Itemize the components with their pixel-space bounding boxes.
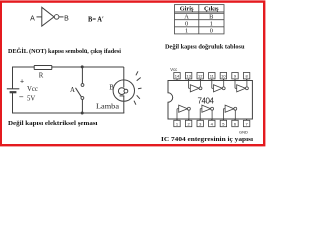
wire bottom [13,112,125,114]
pin 14 [174,73,180,79]
inverter U1 [42,7,59,26]
pin 3 [197,120,203,126]
gate U2B pins 11-10 [212,79,225,92]
wire left lower [12,92,14,113]
pin 2 [185,120,191,126]
pin 13 [185,73,191,79]
pin 9 [232,73,238,79]
IC body U2 [168,81,252,120]
svg-text:Çıkış: Çıkış [204,6,219,13]
gate U2F pins 5-6 [223,105,236,120]
wire top [13,66,124,68]
svg-text:B= A′: B= A′ [88,14,104,23]
svg-text:GND: GND [239,130,248,135]
svg-text:14: 14 [175,74,180,79]
svg-text:Değil kapısı elektriksel şemas: Değil kapısı elektriksel şeması [8,120,98,127]
lamp [113,67,134,113]
gate U2C pins 9-8 [235,79,248,92]
svg-text:5V: 5V [27,95,35,102]
pin 11 [209,73,215,79]
svg-text:A: A [30,15,35,22]
lamp rays [134,71,142,104]
svg-text:1: 1 [185,28,188,35]
gate U2D pins 1-2 [177,105,190,120]
battery BT1 [7,89,19,92]
svg-text:Değil kapısı doğruluk tablosu: Değil kapısı doğruluk tablosu [165,44,245,51]
svg-text:IC 7404 entegresinin iç yapısı: IC 7404 entegresinin iç yapısı [161,136,253,143]
svg-text:DEĞİL (NOT) kapısı sembolü, ç: DEĞİL (NOT) kapısı sembolü, çıkış ifades… [8,47,121,55]
pin 12 [197,73,203,79]
svg-text:0: 0 [210,28,213,35]
pin 8 [243,73,249,79]
wire [37,16,42,18]
svg-text:Vcc: Vcc [27,86,38,93]
pin 1 [174,120,180,126]
truth table [175,5,225,34]
svg-text:A: A [70,87,75,94]
svg-text:13: 13 [186,74,191,79]
svg-text:Lamba: Lamba [96,103,119,110]
pin stems top [177,79,247,81]
svg-text:Giriş: Giriş [180,6,194,13]
svg-text:Vcc: Vcc [170,67,177,72]
svg-text:A: A [184,14,189,21]
wire left upper [12,67,14,89]
svg-text:B: B [209,14,213,21]
gate U2E pins 3-4 [200,105,213,120]
switch A [76,65,84,114]
pin 5 [220,120,226,126]
resistor R [34,66,52,80]
pin 10 [220,73,226,79]
svg-text:12: 12 [198,74,203,79]
svg-text:7404: 7404 [198,96,215,105]
pin 7 [243,120,249,126]
svg-text:−: − [19,93,24,102]
svg-text:B: B [64,15,69,22]
pin 4 [209,120,215,126]
svg-text:10: 10 [221,74,226,79]
pin 6 [232,120,238,126]
gate U2A pins 13-12 [189,79,202,92]
svg-text:B: B [109,85,114,92]
pin stems bottom [177,119,247,120]
svg-text:+: + [20,79,24,86]
svg-text:R: R [39,72,44,79]
wire [59,16,64,18]
